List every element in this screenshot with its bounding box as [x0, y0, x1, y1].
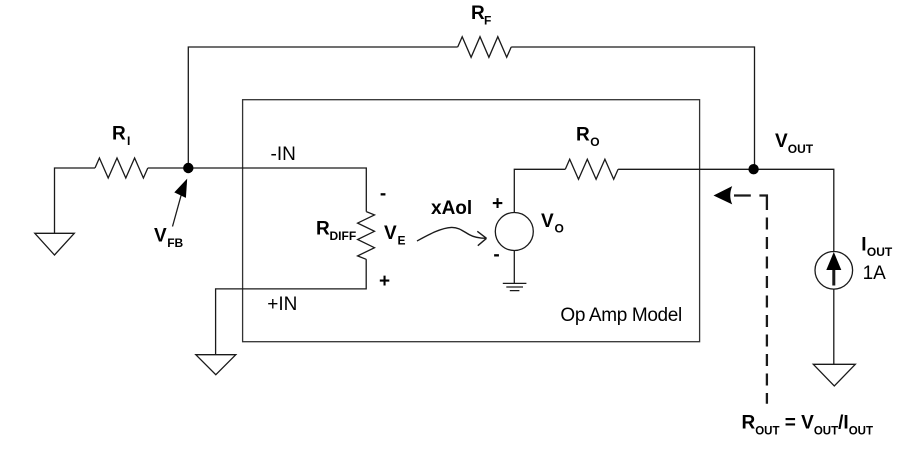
svg-text:V: V	[154, 225, 167, 246]
ground earth	[503, 283, 527, 290]
op-amp model box	[243, 100, 700, 342]
svg-text:+IN: +IN	[267, 294, 297, 315]
ground	[813, 364, 855, 386]
svg-text:V: V	[384, 223, 397, 244]
svg-text:O: O	[590, 135, 599, 149]
wire Vo stem top	[514, 169, 565, 212]
wire Vo stem bottom	[513, 251, 515, 284]
svg-text:OUT: OUT	[788, 142, 814, 156]
wire -IN	[188, 168, 366, 212]
svg-text:+: +	[492, 194, 503, 215]
wire RO to Vout node	[618, 168, 753, 170]
resistor RO	[565, 159, 618, 179]
wire Vout to Iout	[754, 169, 834, 251]
svg-text:R: R	[471, 3, 485, 24]
svg-text:OUT: OUT	[867, 245, 893, 259]
svg-text:O: O	[555, 222, 564, 236]
svg-text:FB: FB	[167, 236, 183, 250]
arrow VFB pointer	[173, 195, 182, 227]
svg-text:R: R	[316, 219, 330, 240]
resistor RI	[95, 158, 148, 178]
wire Iout to ground	[833, 289, 835, 364]
svg-text:V: V	[775, 131, 788, 152]
svg-text:F: F	[484, 14, 491, 28]
node VFB	[183, 163, 193, 173]
svg-text:-IN: -IN	[271, 144, 296, 165]
ground	[196, 355, 236, 375]
svg-text:DIFF: DIFF	[330, 229, 357, 243]
source VO	[495, 213, 533, 251]
svg-text:I: I	[861, 235, 866, 256]
resistor RF	[458, 37, 511, 58]
svg-text:1A: 1A	[863, 263, 887, 284]
svg-text:R: R	[112, 124, 126, 145]
dashed pointer ROUT	[714, 186, 733, 204]
svg-text:xAol: xAol	[431, 198, 472, 219]
svg-text:E: E	[398, 233, 406, 247]
wire +IN	[216, 259, 367, 354]
svg-text:V: V	[541, 211, 554, 232]
svg-text:ROUT = VOUT/IOUT: ROUT = VOUT/IOUT	[742, 413, 873, 438]
current source IOUT	[815, 251, 853, 289]
ground	[35, 233, 75, 255]
svg-text:+: +	[379, 271, 390, 292]
wire left lead to ground	[55, 168, 96, 233]
svg-text:R: R	[576, 125, 590, 146]
svg-text:Op Amp Model: Op Amp Model	[560, 305, 681, 326]
wire feedback riser	[188, 47, 457, 168]
svg-text:-: -	[493, 245, 499, 266]
resistor RDIFF	[358, 212, 375, 260]
svg-text:-: -	[380, 184, 386, 205]
arrow xAol squiggle	[417, 227, 486, 241]
wire RI to node	[148, 167, 188, 169]
node VOUT	[748, 164, 758, 174]
wire RF to Vout	[511, 47, 754, 169]
svg-text:I: I	[127, 134, 130, 148]
